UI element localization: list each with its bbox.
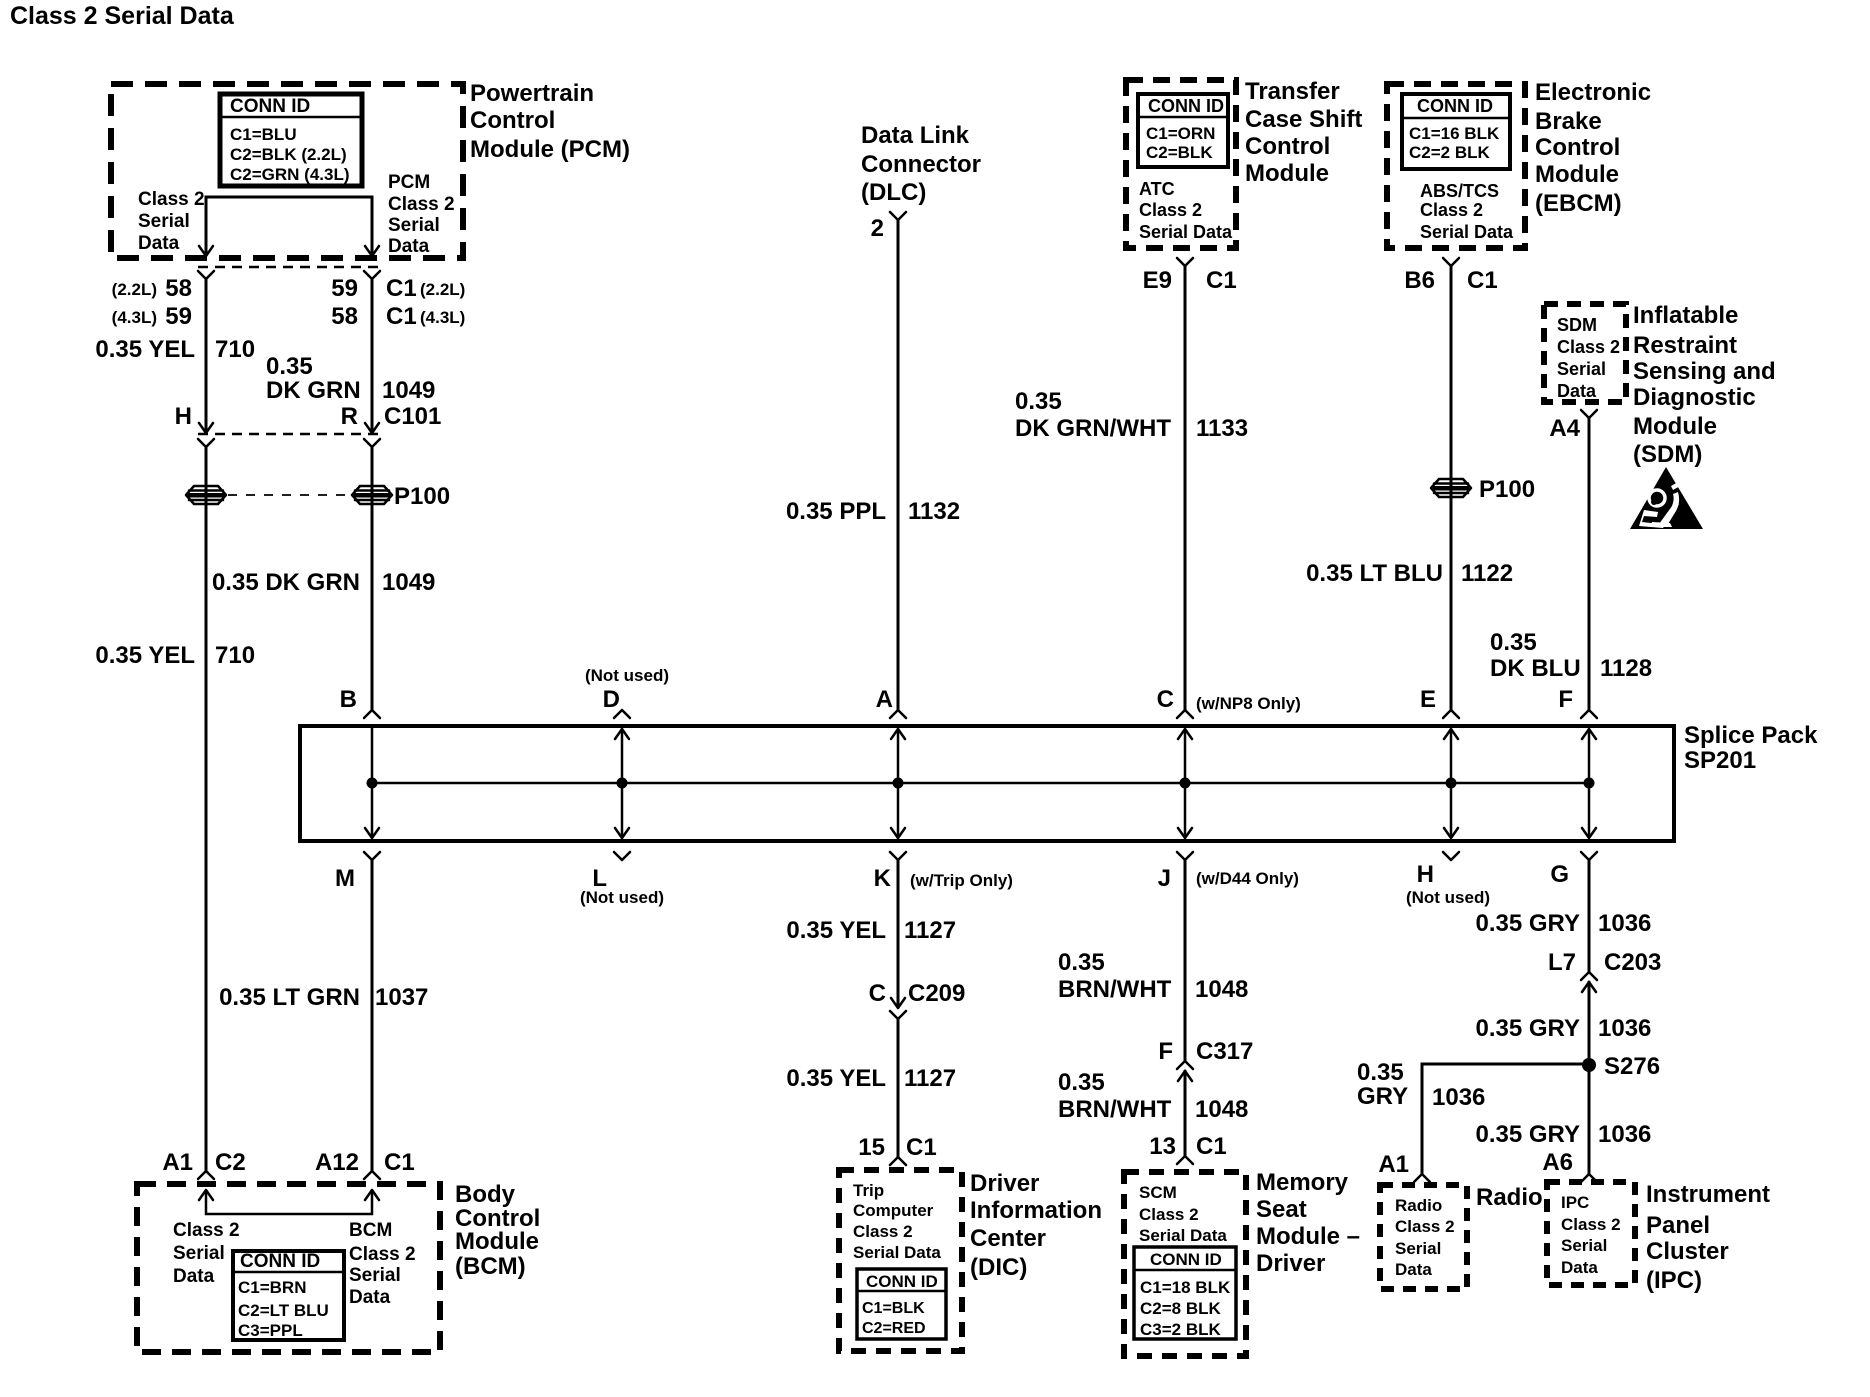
svg-text:C2=GRN (4.3L): C2=GRN (4.3L): [230, 165, 350, 184]
svg-text:Data: Data: [1561, 1258, 1598, 1277]
label Driver Information Center (DIC): [970, 1170, 1102, 1281]
BCM module dashed box: [137, 1184, 440, 1352]
label Instrument Panel Cluster (IPC): [1646, 1181, 1770, 1294]
label 0.35 GRY 1036 top: [1476, 910, 1652, 937]
svg-text:C1: C1: [1206, 267, 1237, 294]
svg-text:C1=BLK: C1=BLK: [862, 1300, 925, 1317]
svg-text:1122: 1122: [1461, 560, 1513, 587]
BCM left text Class 2 Serial Data: [173, 1220, 240, 1287]
PCM pigtail connector dashed line: [198, 266, 380, 269]
svg-text:C1=BRN: C1=BRN: [238, 1278, 307, 1297]
svg-text:1036: 1036: [1432, 1084, 1485, 1111]
svg-text:C1: C1: [906, 1134, 937, 1161]
svg-text:CONN ID: CONN ID: [1417, 96, 1493, 116]
label Transfer Case Shift Control Module: [1245, 78, 1362, 187]
wire YEL below C101: [205, 447, 208, 1171]
svg-text:58: 58: [165, 275, 192, 302]
BCM internal wire: [206, 1191, 372, 1214]
airbag warning triangle: [1630, 467, 1703, 529]
splice internal wire B-M: [371, 727, 374, 837]
svg-text:Class 2: Class 2: [349, 1244, 416, 1265]
wire ATC to splice C: [1184, 266, 1187, 710]
ATC CONN ID table: [1138, 94, 1228, 167]
svg-text:0.35 GRY: 0.35 GRY: [1476, 910, 1581, 937]
fork into BCM right: [364, 1171, 380, 1179]
svg-text:Class 2 Serial Data: Class 2 Serial Data: [10, 2, 235, 30]
svg-text:PCM: PCM: [388, 172, 430, 193]
svg-text:A4: A4: [1549, 415, 1580, 442]
svg-text:C3=PPL: C3=PPL: [238, 1321, 303, 1340]
svg-text:H: H: [1417, 861, 1434, 888]
svg-text:0.35 LT BLU: 0.35 LT BLU: [1306, 560, 1443, 587]
fork below splice H: [1443, 852, 1459, 860]
svg-text:Class 2: Class 2: [853, 1222, 913, 1241]
svg-text:0.35 GRY: 0.35 GRY: [1476, 1015, 1581, 1042]
svg-text:A1: A1: [1378, 1151, 1409, 1178]
SCM CONN ID table: [1134, 1247, 1236, 1339]
svg-text:Brake: Brake: [1535, 108, 1602, 135]
svg-text:0.35: 0.35: [1058, 949, 1105, 976]
svg-text:ATC: ATC: [1139, 179, 1175, 199]
svg-text:(Not used): (Not used): [1406, 888, 1490, 907]
svg-text:Powertrain: Powertrain: [470, 80, 594, 107]
svg-text:Class 2: Class 2: [1139, 1205, 1199, 1224]
svg-text:Serial Data: Serial Data: [853, 1243, 941, 1262]
svg-text:CONN ID: CONN ID: [240, 1251, 320, 1272]
wire C317 to SCM: [1184, 1071, 1187, 1156]
svg-text:C2=RED: C2=RED: [862, 1320, 926, 1337]
svg-text:C: C: [1157, 686, 1174, 713]
svg-text:GRY: GRY: [1357, 1083, 1408, 1110]
EBCM CONN ID table: [1402, 94, 1510, 169]
fork into SCM: [1177, 1156, 1193, 1164]
fork above splice E: [1443, 710, 1459, 718]
grommet P100 right: [352, 486, 392, 504]
svg-text:C317: C317: [1196, 1038, 1253, 1065]
svg-text:Center: Center: [970, 1225, 1046, 1252]
svg-text:710: 710: [215, 336, 255, 363]
svg-text:C2=8 BLK: C2=8 BLK: [1140, 1299, 1221, 1318]
fork into DIC: [890, 1157, 906, 1165]
grommet P100 left: [186, 486, 226, 504]
svg-text:C1=ORN: C1=ORN: [1146, 124, 1215, 143]
SCM box text: [1139, 1183, 1227, 1245]
svg-text:E9: E9: [1143, 267, 1172, 294]
label Electronic Brake Control Module (EBCM): [1535, 79, 1651, 217]
svg-text:(DIC): (DIC): [970, 1254, 1027, 1281]
connector C101 fork left: [198, 439, 214, 447]
svg-text:C1=BLU: C1=BLU: [230, 125, 297, 144]
fork below splice K: [890, 852, 906, 860]
svg-text:Transfer: Transfer: [1245, 78, 1340, 105]
svg-text:L7: L7: [1548, 949, 1576, 976]
svg-text:Seat: Seat: [1256, 1196, 1307, 1223]
PCM CONN ID table: [220, 94, 362, 186]
DIC module dashed box: [839, 1170, 962, 1351]
svg-text:0.35 YEL: 0.35 YEL: [95, 642, 195, 669]
SDM box text: [1557, 315, 1620, 401]
svg-text:1036: 1036: [1598, 1121, 1651, 1148]
svg-text:(2.2L): (2.2L): [420, 280, 465, 299]
svg-text:CONN ID: CONN ID: [1150, 1250, 1222, 1269]
pin R and connector C101 name: [341, 403, 442, 430]
label Memory Seat Module - Driver: [1256, 1169, 1360, 1277]
svg-text:Serial Data: Serial Data: [1420, 222, 1514, 242]
label Inflatable Restraint Sensing and Diagnostic Module (SDM): [1633, 302, 1776, 468]
svg-text:0.35 LT GRN: 0.35 LT GRN: [219, 984, 360, 1011]
svg-text:DK BLU: DK BLU: [1490, 655, 1581, 682]
label 0.35 LT GRN 1037: [219, 984, 428, 1011]
svg-text:1036: 1036: [1598, 910, 1651, 937]
svg-text:Cluster: Cluster: [1646, 1238, 1729, 1265]
label 0.35 DK BLU 1128: [1490, 629, 1652, 682]
svg-text:H: H: [175, 403, 192, 430]
svg-text:1048: 1048: [1195, 1096, 1248, 1123]
svg-text:Splice Pack: Splice Pack: [1684, 722, 1818, 749]
svg-text:Driver: Driver: [970, 1170, 1039, 1197]
label 0.35 GRY 1036 second: [1476, 1015, 1652, 1042]
label Data Link Connector (DLC): [861, 122, 981, 206]
svg-text:C1: C1: [386, 303, 417, 330]
svg-text:P100: P100: [394, 483, 450, 510]
svg-text:(DLC): (DLC): [861, 179, 926, 206]
svg-text:Data Link: Data Link: [861, 122, 970, 149]
svg-text:C203: C203: [1604, 949, 1661, 976]
svg-text:1127: 1127: [904, 917, 956, 944]
svg-text:ABS/TCS: ABS/TCS: [1420, 181, 1499, 201]
svg-text:SP201: SP201: [1684, 747, 1756, 774]
svg-text:BRN/WHT: BRN/WHT: [1058, 976, 1172, 1003]
svg-text:C1: C1: [1467, 267, 1498, 294]
svg-text:Serial: Serial: [1561, 1236, 1607, 1255]
radio box text: [1395, 1196, 1455, 1279]
svg-text:C3=2 BLK: C3=2 BLK: [1140, 1320, 1221, 1339]
wire 710 PCM to C101: [205, 279, 208, 431]
svg-text:1048: 1048: [1195, 976, 1248, 1003]
svg-text:0.35 DK GRN: 0.35 DK GRN: [212, 569, 360, 596]
svg-text:(4.3L): (4.3L): [420, 308, 465, 327]
svg-text:1049: 1049: [382, 569, 435, 596]
fork into radio: [1414, 1174, 1430, 1182]
BCM right text BCM Class 2 Serial Data: [349, 1220, 416, 1308]
splice S276: [1582, 1058, 1596, 1072]
svg-text:BCM: BCM: [349, 1220, 392, 1241]
svg-text:Serial: Serial: [1395, 1239, 1441, 1258]
PCM left pin label: Class 2 Serial Data: [138, 189, 205, 254]
svg-text:A1: A1: [162, 1149, 193, 1176]
svg-text:Module: Module: [455, 1228, 539, 1255]
svg-text:Driver: Driver: [1256, 1250, 1325, 1277]
PCM internal class 2 serial data wire: [206, 197, 372, 252]
wire C203 to IPC: [1588, 982, 1591, 1174]
svg-text:Class 2: Class 2: [1420, 200, 1483, 220]
svg-text:Serial Data: Serial Data: [1139, 1226, 1227, 1245]
fork into IPC: [1581, 1174, 1597, 1182]
svg-text:Serial: Serial: [173, 1243, 225, 1264]
svg-text:Connector: Connector: [861, 151, 981, 178]
EBCM pins B6 C1: [1404, 267, 1497, 294]
fork above splice D: [614, 710, 630, 718]
BCM pins A12 C1: [315, 1149, 415, 1176]
svg-text:C1: C1: [384, 1149, 415, 1176]
svg-text:0.35: 0.35: [1490, 629, 1537, 656]
svg-text:Computer: Computer: [853, 1201, 934, 1220]
svg-text:Serial: Serial: [138, 211, 190, 232]
svg-text:1127: 1127: [904, 1065, 956, 1092]
svg-text:Body: Body: [455, 1181, 516, 1208]
splice internal wire D-L: [621, 729, 624, 837]
ATC module dashed box: [1126, 80, 1236, 248]
svg-text:Control: Control: [1535, 134, 1620, 161]
svg-text:(w/Trip Only): (w/Trip Only): [910, 871, 1013, 890]
svg-text:Information: Information: [970, 1197, 1102, 1224]
svg-text:(Not used): (Not used): [580, 888, 664, 907]
svg-text:Panel: Panel: [1646, 1212, 1710, 1239]
radio module dashed box: [1380, 1185, 1467, 1289]
svg-text:F: F: [1158, 1038, 1173, 1065]
svg-text:SDM: SDM: [1557, 315, 1597, 335]
svg-text:Class 2: Class 2: [1395, 1217, 1455, 1236]
svg-text:0.35 YEL: 0.35 YEL: [786, 917, 886, 944]
svg-text:G: G: [1550, 861, 1569, 888]
svg-text:IPC: IPC: [1561, 1193, 1589, 1212]
SCM module dashed box: [1124, 1172, 1246, 1356]
svg-text:Case Shift: Case Shift: [1245, 106, 1362, 133]
splice pack label: [1684, 722, 1818, 774]
wire 1049 PCM to C101: [371, 279, 374, 431]
EBCM pin fork: [1443, 258, 1459, 266]
svg-text:Control: Control: [470, 107, 555, 134]
svg-text:58: 58: [331, 303, 358, 330]
svg-text:Instrument: Instrument: [1646, 1181, 1770, 1208]
svg-text:Data: Data: [388, 236, 430, 257]
svg-text:Class 2: Class 2: [1139, 200, 1202, 220]
svg-text:Class 2: Class 2: [138, 189, 205, 210]
svg-text:0.35: 0.35: [1058, 1069, 1105, 1096]
fork above splice A: [890, 710, 906, 718]
connector C317 name: [1158, 1038, 1253, 1065]
fork above splice C: [1177, 710, 1193, 718]
splice internal wire C-J: [1184, 729, 1187, 837]
P100 dashed link: [228, 494, 350, 496]
svg-text:M: M: [335, 865, 355, 892]
svg-text:Restraint: Restraint: [1633, 332, 1737, 359]
svg-text:CONN ID: CONN ID: [230, 96, 310, 117]
svg-text:Class 2: Class 2: [1561, 1215, 1621, 1234]
DLC pin fork: [890, 212, 906, 220]
connector C101 arrows: [199, 423, 213, 433]
svg-text:C209: C209: [908, 980, 965, 1007]
svg-text:C: C: [869, 980, 886, 1007]
svg-text:A12: A12: [315, 1149, 359, 1176]
svg-text:SCM: SCM: [1139, 1183, 1177, 1202]
svg-text:C2=LT BLU: C2=LT BLU: [238, 1301, 329, 1320]
svg-text:Data: Data: [349, 1287, 391, 1308]
PCM pin numbers right: [331, 275, 465, 330]
label 0.35 YEL 710 upper: [95, 336, 255, 363]
svg-text:P100: P100: [1479, 476, 1535, 503]
connector C203 symbol: [1581, 972, 1597, 980]
svg-text:(2.2L): (2.2L): [112, 280, 157, 299]
svg-text:1037: 1037: [375, 984, 428, 1011]
svg-text:K: K: [874, 865, 892, 892]
svg-text:Radio: Radio: [1395, 1196, 1442, 1215]
svg-text:(EBCM): (EBCM): [1535, 190, 1622, 217]
SDM pin fork: [1581, 410, 1597, 418]
svg-text:(Not used): (Not used): [585, 666, 669, 685]
PCM pigtail fork right: [364, 271, 380, 279]
svg-text:1036: 1036: [1598, 1015, 1651, 1042]
label 0.35 BRN/WHT 1048 lower: [1058, 1069, 1248, 1123]
splice pack SP201 box: [300, 726, 1674, 841]
wire SDM to splice F: [1588, 418, 1591, 710]
SCM pins 13 C1: [1149, 1133, 1226, 1160]
svg-text:C2=BLK: C2=BLK: [1146, 143, 1213, 162]
PCM right pin label: PCM Class 2 Serial Data: [388, 172, 455, 257]
svg-text:C1=16 BLK: C1=16 BLK: [1409, 124, 1500, 143]
svg-text:Control: Control: [1245, 133, 1330, 160]
svg-text:B6: B6: [1404, 267, 1435, 294]
label Body Control Module (BCM): [455, 1181, 540, 1280]
svg-text:Serial: Serial: [349, 1265, 401, 1286]
svg-text:Module: Module: [1535, 161, 1619, 188]
splice pack bus: [372, 782, 1588, 785]
svg-text:0.35: 0.35: [1015, 388, 1062, 415]
wire splice G to C203: [1588, 860, 1591, 972]
svg-text:Module –: Module –: [1256, 1223, 1360, 1250]
PCM module dashed box: [111, 84, 463, 258]
fork above splice B: [364, 710, 380, 718]
arrowhead into PCM bottom edge (left): [199, 246, 213, 256]
splice internal wire F-G: [1588, 729, 1591, 837]
svg-text:Inflatable: Inflatable: [1633, 302, 1738, 329]
label 0.35 DK GRN 1049 lower: [212, 569, 435, 596]
svg-text:R: R: [341, 403, 358, 430]
fork above splice F: [1581, 710, 1597, 718]
svg-text:0.35: 0.35: [1357, 1059, 1404, 1086]
BCM CONN ID table: [233, 1251, 344, 1340]
svg-text:13: 13: [1149, 1133, 1176, 1160]
svg-text:F: F: [1558, 686, 1573, 713]
svg-text:C1=18 BLK: C1=18 BLK: [1140, 1278, 1231, 1297]
svg-text:BRN/WHT: BRN/WHT: [1058, 1096, 1172, 1123]
svg-text:1133: 1133: [1196, 415, 1248, 442]
svg-text:Diagnostic: Diagnostic: [1633, 384, 1756, 411]
DIC CONN ID table: [857, 1269, 946, 1339]
svg-text:(IPC): (IPC): [1646, 1267, 1702, 1294]
EBCM box text: [1420, 181, 1514, 242]
svg-text:(SDM): (SDM): [1633, 441, 1702, 468]
ATC box text: [1139, 179, 1233, 242]
ATC pin fork: [1177, 258, 1193, 266]
IPC box text: [1561, 1193, 1621, 1277]
label 0.35 DK GRN/WHT 1133: [1015, 388, 1248, 442]
svg-text:1132: 1132: [908, 498, 960, 525]
svg-text:C2=2 BLK: C2=2 BLK: [1409, 143, 1490, 162]
label 0.35 BRN/WHT 1048 upper: [1058, 949, 1248, 1003]
svg-text:S276: S276: [1604, 1053, 1660, 1080]
label 0.35 YEL 710 lower: [95, 642, 255, 669]
BCM pins A1 C2: [162, 1149, 245, 1176]
svg-text:Class 2: Class 2: [388, 194, 455, 215]
svg-text:(w/NP8 Only): (w/NP8 Only): [1196, 694, 1301, 713]
connector C209 name: [869, 980, 966, 1007]
svg-text:15: 15: [858, 1134, 885, 1161]
branch wire S276 to radio: [1422, 1064, 1589, 1174]
connector C203 name: [1548, 949, 1661, 976]
PCM pin numbers left: [112, 275, 192, 330]
svg-text:0.35: 0.35: [266, 353, 313, 380]
svg-text:710: 710: [215, 642, 255, 669]
wire DLC to splice A: [897, 220, 900, 710]
label 0.35 GRY 1036 branch: [1357, 1059, 1485, 1111]
svg-text:(w/D44 Only): (w/D44 Only): [1196, 869, 1299, 888]
svg-text:D: D: [603, 686, 620, 713]
IPC module dashed box: [1547, 1182, 1635, 1285]
label 0.35 LT BLU 1122: [1306, 560, 1513, 587]
arrowhead into PCM bottom edge (right): [365, 246, 379, 256]
svg-text:Serial: Serial: [1557, 359, 1606, 379]
splice internal wire E-H: [1450, 729, 1453, 837]
connector C101 fork right: [364, 439, 380, 447]
svg-text:Class 2: Class 2: [173, 1220, 240, 1241]
svg-text:E: E: [1420, 686, 1436, 713]
svg-text:59: 59: [331, 275, 358, 302]
connector C209 symbol: [891, 998, 905, 1008]
svg-text:1128: 1128: [1600, 655, 1652, 682]
fork below splice L: [614, 852, 630, 860]
svg-text:(BCM): (BCM): [455, 1253, 526, 1280]
svg-text:Memory: Memory: [1256, 1169, 1349, 1196]
svg-text:0.35 YEL: 0.35 YEL: [95, 336, 195, 363]
label 0.35 DK GRN 1049 upper: [266, 353, 435, 404]
wire splice M to BCM: [371, 860, 374, 1171]
wire DK GRN below C101: [371, 447, 374, 710]
svg-text:DK GRN/WHT: DK GRN/WHT: [1015, 415, 1171, 442]
label 0.35 GRY 1036 lower: [1476, 1121, 1652, 1148]
svg-text:Electronic: Electronic: [1535, 79, 1651, 106]
svg-text:0.35 YEL: 0.35 YEL: [786, 1065, 886, 1092]
svg-text:CONN ID: CONN ID: [1148, 96, 1224, 116]
label Powertrain Control Module (PCM): [470, 80, 630, 163]
svg-text:Class 2: Class 2: [1557, 337, 1620, 357]
svg-text:Module (PCM): Module (PCM): [470, 136, 630, 163]
svg-text:CONN ID: CONN ID: [866, 1272, 938, 1291]
svg-text:Module: Module: [1245, 160, 1329, 187]
label 0.35 YEL 1127 lower: [786, 1065, 956, 1092]
fork into BCM left: [198, 1171, 214, 1179]
svg-text:Sensing and: Sensing and: [1633, 358, 1776, 385]
svg-text:Serial: Serial: [388, 215, 440, 236]
fork below splice J: [1177, 852, 1193, 860]
wire C209 to DIC: [897, 1019, 900, 1157]
svg-text:Data: Data: [1557, 381, 1597, 401]
grommet P100 EBCM: [1431, 479, 1471, 497]
svg-text:Trip: Trip: [853, 1181, 884, 1200]
ATC pins E9 C1: [1143, 267, 1237, 294]
fork below splice G: [1581, 852, 1597, 860]
connector C317 symbol: [1177, 1061, 1193, 1069]
wire splice K to C209: [897, 860, 900, 1007]
connector C101 dashed line: [198, 433, 380, 436]
svg-text:Data: Data: [173, 1266, 215, 1287]
EBCM module dashed box: [1387, 84, 1525, 248]
svg-text:Data: Data: [138, 233, 180, 254]
PCM pigtail fork left: [198, 271, 214, 279]
svg-text:(4.3L): (4.3L): [112, 308, 157, 327]
svg-text:A6: A6: [1542, 1149, 1573, 1176]
svg-text:C101: C101: [384, 403, 441, 430]
